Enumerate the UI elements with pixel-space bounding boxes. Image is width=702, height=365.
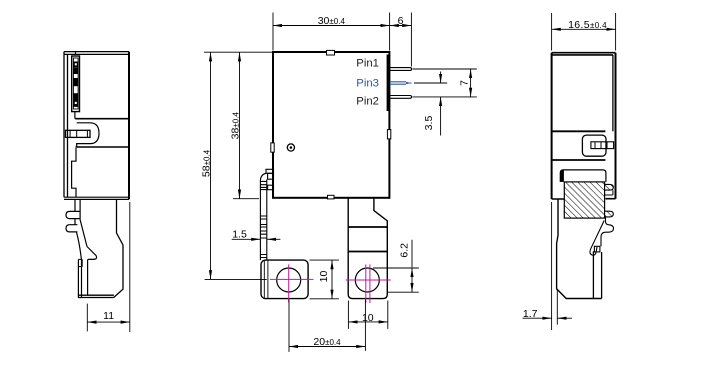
svg-text:Pin2: Pin2: [356, 96, 379, 108]
left view: connector strip inner rect: [73, 58, 78, 109]
svg-text:16.5±0.4: 16.5±0.4: [568, 19, 607, 31]
left view: lower assembly verticals below box: [75, 199, 80, 219]
right view: lower body outline: [557, 199, 602, 299]
svg-text:1.7: 1.7: [523, 308, 538, 320]
left view: chamfer bottom right: [114, 289, 124, 298]
svg-text:Pin3: Pin3: [356, 78, 379, 90]
svg-text:11: 11: [103, 310, 114, 322]
svg-text:10: 10: [362, 312, 374, 324]
dimension 10 (foot height): [310, 260, 339, 299]
middle view: circle mark: [287, 144, 294, 151]
left view: vertical connecting strip to division: [74, 112, 76, 119]
strip rungs: [260, 181, 266, 257]
bracket mid rect: [268, 173, 274, 179]
svg-text:6: 6: [398, 15, 404, 27]
right view: box bottom edge segments: [552, 198, 616, 200]
svg-text:6.2: 6.2: [399, 243, 411, 258]
dimension 30±0.4: [273, 13, 390, 51]
left view: interior division line lower: [76, 146, 130, 148]
svg-text:3.5: 3.5: [423, 116, 435, 131]
right foot hole: [355, 268, 379, 292]
left foot rounded rect: [261, 260, 308, 299]
bracket curve: [260, 173, 266, 181]
left view: short vertical between tabs: [74, 219, 76, 225]
dimension 1.7: [523, 202, 572, 330]
middle view: right edge bump: [387, 130, 390, 139]
svg-text:38±0.4: 38±0.4: [229, 112, 241, 140]
dimension 3.5 (pin3 to pin2): [414, 72, 447, 136]
right view: division line 2: [552, 159, 606, 161]
left view: pin tab 1: [66, 211, 80, 218]
left foot hole: [277, 268, 301, 292]
center lines magenta: left foot: [270, 264, 391, 303]
mounting strip verticals: [260, 180, 266, 261]
right view: latch bar with ticks: [591, 142, 614, 149]
right view: hatched block: [564, 182, 604, 218]
left view: latch rounded bulge: [77, 123, 99, 147]
left view: right edge: [128, 52, 130, 200]
right column division lines: [348, 227, 387, 252]
svg-text:7: 7: [458, 80, 470, 86]
dimension 20±0.4 (hole centers): [289, 300, 365, 352]
right view: inner hook diagonal: [590, 221, 604, 256]
left view: latch bar with ticks: [66, 130, 91, 137]
left view: strip square white dots: [75, 63, 77, 104]
middle view: top notch: [327, 50, 335, 55]
middle view: pin2: [389, 96, 412, 99]
dimension 6.2 (hole diameter): [373, 240, 419, 293]
dimension 16.5±0.4: [552, 13, 616, 51]
bracket top step rect: [266, 169, 274, 173]
middle view: left bracket below box: [260, 169, 387, 298]
middle view: main box: [273, 52, 389, 198]
right view: inner vertical near right edge: [612, 55, 614, 131]
left view: strip black squares: [73, 62, 78, 107]
dimension 1.5 (strip width): [232, 238, 281, 240]
right view: hatched tab 2: [605, 211, 614, 217]
left view: bottom double line: [64, 197, 129, 199]
right view: bar black left cap: [560, 171, 564, 182]
dimension 6: [390, 13, 412, 67]
right view: division line 1: [552, 130, 606, 132]
middle view: pin3 hidden in blue: [390, 82, 412, 85]
right view: latch rounded rect: [582, 135, 606, 156]
left view: top cap double line: [64, 52, 129, 55]
middle view: thick pin base on right edge: [387, 55, 390, 112]
left view: hook: [87, 247, 97, 260]
right column below box: [348, 198, 387, 299]
dimension 7 (pin1 to pin2): [413, 69, 477, 97]
left view: lower bracket small horizontals: [78, 259, 82, 266]
strip extra vertical in foot zone: [264, 260, 268, 299]
svg-text:1.5: 1.5: [232, 229, 247, 241]
right view: foot column: [593, 251, 601, 298]
left view: pin tab 2: [66, 225, 77, 232]
left view: right column of lower body: [117, 199, 124, 289]
right view: foot column cap: [594, 246, 600, 252]
dimension 38±0.4: [233, 52, 259, 199]
svg-text:Pin1: Pin1: [356, 58, 379, 70]
left view: connector strip outer rect: [72, 56, 80, 112]
dimension 10 (right foot width): [348, 301, 387, 329]
right view: box outline: [551, 53, 553, 199]
middle view: bottom notch: [328, 195, 335, 199]
dimension 58±0.4: [204, 52, 273, 279]
middle view: pin1: [389, 68, 412, 71]
middle view: left edge bump: [271, 143, 274, 152]
svg-text:58±0.4: 58±0.4: [200, 149, 212, 177]
left view: lower bracket verticals: [78, 259, 87, 297]
svg-text:10: 10: [318, 271, 330, 283]
bracket lower rect: [268, 185, 274, 190]
right view: bar above hatch block: [560, 170, 606, 182]
left view: stepped inner wall: [72, 148, 76, 197]
left view: bottom plate double line: [78, 295, 114, 297]
left view: interior division line upper: [75, 118, 129, 120]
right view: corner step right of hatch: [605, 190, 613, 195]
svg-text:30±0.4: 30±0.4: [318, 15, 346, 27]
right view: hatched tab 1: [605, 184, 614, 190]
left view: bent leg diagonals: [76, 220, 87, 260]
left view: outer left wall lines: [64, 52, 68, 198]
dimension 11: [87, 202, 130, 332]
right view: outer hook below tabs: [601, 217, 614, 246]
center lines magenta: right foot: [346, 279, 391, 281]
svg-text:20±0.4: 20±0.4: [313, 336, 341, 348]
